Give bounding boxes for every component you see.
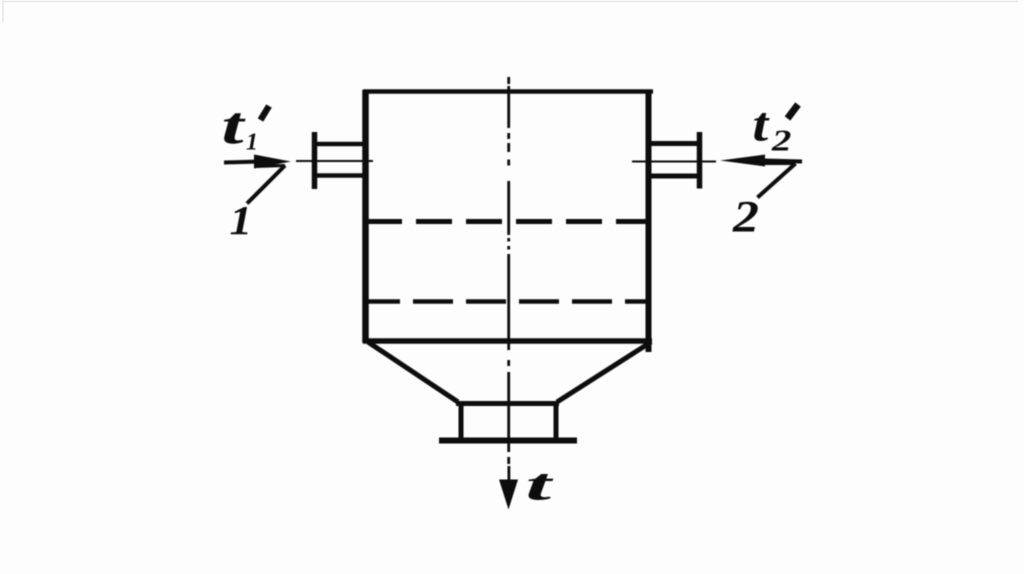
svg-text:t: t xyxy=(526,458,555,509)
svg-text:t: t xyxy=(753,98,770,152)
svg-text:1: 1 xyxy=(246,130,258,156)
svg-text:2: 2 xyxy=(732,193,759,241)
svg-text:1: 1 xyxy=(230,199,253,244)
svg-text:2: 2 xyxy=(771,123,791,157)
svg-text:t: t xyxy=(222,96,247,155)
